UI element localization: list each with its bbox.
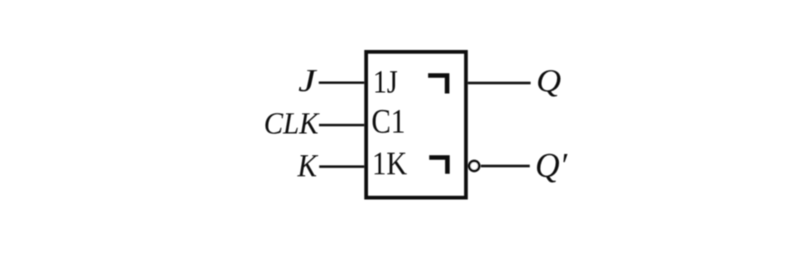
postponed-output symbol at Q' [429,158,447,174]
wire CLK input [319,124,364,126]
pin label 1K [375,153,407,175]
label J [299,70,317,91]
label CLK [265,113,319,134]
label K [297,155,318,176]
label Q [538,70,560,96]
wire J input [319,81,365,83]
label Q' [537,154,567,183]
postponed-output symbol at Q [428,76,447,94]
pin label C1 [373,110,404,133]
wire Q' output [481,165,530,167]
flip-flop U1 body [366,52,466,198]
inversion bubble on Q' output [469,161,479,171]
wire K input [319,165,364,168]
pin label 1J [375,71,397,93]
wire Q output [468,82,531,85]
